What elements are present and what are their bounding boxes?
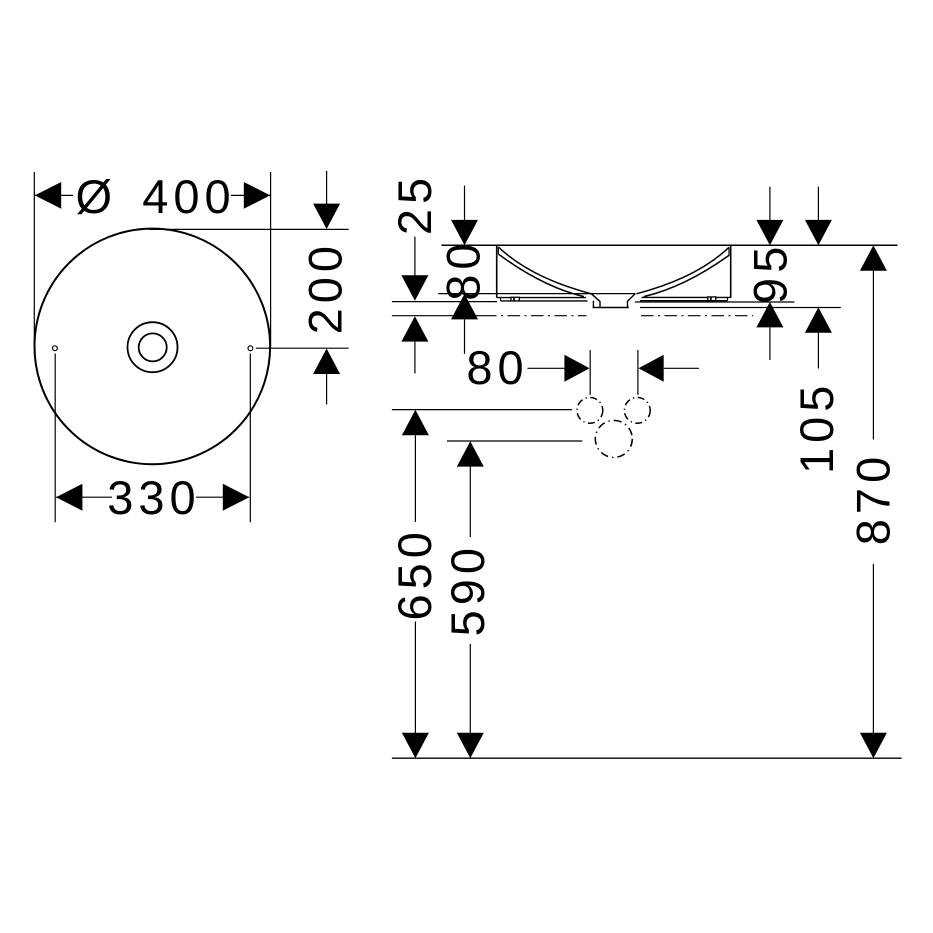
svg-text:330: 330	[107, 471, 200, 524]
dimension 330: line segments	[56, 496, 112, 498]
dimension 330: right arrowhead	[223, 484, 249, 511]
svg-text:650: 650	[388, 527, 441, 620]
dimension 650: bottom arrow (down)	[402, 733, 429, 758]
basin left wall	[496, 245, 498, 297]
interior bottom line (80 reference, runs to drain flat)	[438, 293, 635, 295]
drain boss inner wall left	[599, 301, 601, 308]
svg-text:80: 80	[437, 238, 490, 300]
bowl upper curve right	[636, 247, 729, 293]
shell bottom line right	[642, 296, 731, 298]
plinth bottom line left	[501, 300, 588, 302]
drain outer circle	[128, 322, 178, 372]
drain funnel left slant	[591, 294, 599, 301]
svg-text:25: 25	[388, 173, 441, 235]
floor line	[392, 757, 902, 759]
dimension 80 horizontal: right line	[664, 367, 699, 369]
svg-text:Ø: Ø	[76, 170, 113, 223]
supply hole circle right (dash-dot)	[624, 398, 650, 424]
plinth bottom line right	[640, 300, 728, 302]
shell bottom line left	[497, 297, 586, 299]
drain hole reference line (590 level)	[447, 440, 583, 442]
svg-text:80: 80	[466, 341, 528, 394]
svg-text:590: 590	[441, 543, 494, 636]
drain hole circle (dash-dot)	[595, 420, 632, 457]
dimension 870: upper shaft	[872, 271, 874, 440]
dimension 590: bottom arrow (down)	[457, 733, 484, 758]
drain funnel right slant	[628, 294, 636, 301]
dimension 25: up arrow	[401, 316, 428, 341]
svg-text:400: 400	[142, 170, 235, 223]
basin outer circle (top view)	[35, 229, 271, 465]
dimension 650: lower shaft	[414, 622, 416, 734]
bowl upper curve left	[498, 247, 591, 294]
dimension 200: lower shaft	[326, 374, 328, 405]
inner rim notch right	[728, 247, 730, 255]
dimension 95: down arrow	[756, 220, 783, 245]
dimension 330: left witness line	[54, 354, 56, 523]
centre dash-dot line: middle part	[484, 315, 587, 317]
dimension 200: top arrow (down)	[313, 204, 340, 229]
supply holes reference line (650 level)	[392, 409, 572, 411]
dimension 105: down arrow	[805, 220, 832, 245]
dimension 95: lower shaft	[769, 327, 771, 360]
dimension 200: upper shaft	[326, 171, 328, 205]
dimension 25: upper shaft	[414, 237, 416, 276]
dimension 870: bottom arrow (down)	[860, 733, 887, 758]
dimension 95: up arrow	[756, 302, 783, 327]
dimension Ø400: right arrowhead	[244, 182, 270, 209]
dimension 80 horizontal: right witness line	[637, 350, 639, 395]
countertop line left of basin	[392, 301, 497, 303]
svg-text:200: 200	[299, 241, 352, 334]
dimension 80 vertical: up arrow	[451, 294, 478, 319]
dimension 80 vertical: down arrow	[451, 220, 478, 245]
rim top reference line	[442, 244, 898, 246]
dimension 330: left arrowhead	[56, 484, 82, 511]
bowl lower curve right	[644, 255, 730, 297]
bowl lower curve left	[498, 254, 584, 297]
dimension 80 vertical: upper shaft	[464, 186, 466, 221]
supply hole circle left (dash-dot)	[577, 398, 603, 424]
dimension 870: top arrow (up)	[860, 245, 887, 270]
dimension 25: lower shaft	[414, 342, 416, 374]
drain boss bottom	[593, 307, 629, 309]
dimension 650: top arrow (up)	[402, 410, 429, 435]
dimension 200: top tangent reference line	[149, 228, 349, 230]
foot clip right	[708, 297, 716, 301]
drain inner circle	[139, 333, 167, 361]
dimension 80 horizontal: right-pointing arrow	[564, 355, 589, 382]
dimension 870: lower shaft	[872, 564, 874, 733]
left fixing dot	[53, 346, 58, 351]
drain boss inner wall right	[627, 301, 629, 308]
dimension 25: down arrow	[401, 275, 428, 300]
right fixing dot	[248, 346, 253, 351]
dimension 80 horizontal: left line	[528, 367, 566, 369]
basin right wall	[730, 245, 732, 297]
dimension 105: upper shaft	[817, 187, 819, 221]
drain boss outer wall left	[592, 301, 594, 308]
svg-text:870: 870	[846, 452, 899, 545]
dimension Ø400: line stubs	[34, 194, 73, 196]
svg-text:95: 95	[744, 242, 797, 304]
dimension 80 horizontal: left-pointing arrow	[639, 355, 664, 382]
dimension 590: upper shaft	[469, 467, 471, 537]
dimension 590: top arrow (up)	[457, 441, 484, 466]
dimension 200: bottom arrow (up)	[313, 349, 340, 375]
centre dash-dot line: right part	[641, 315, 753, 317]
105 reference line	[640, 307, 841, 309]
plinth end left	[500, 298, 502, 301]
dimension Ø400: right witness line	[270, 172, 272, 346]
svg-text:105: 105	[790, 381, 843, 474]
dimension 200: centre reference line	[256, 347, 349, 349]
centre dash-dot line: solid left part	[392, 315, 484, 317]
dimension 590: lower shaft	[469, 644, 471, 733]
dimension 95: upper shaft	[769, 187, 771, 221]
plinth end right	[727, 297, 729, 300]
dimension 105: lower shaft	[817, 333, 819, 369]
dimension Ø400: left witness line	[33, 172, 35, 344]
foot clip left	[511, 297, 519, 301]
dimension 80 horizontal: left witness line	[589, 350, 591, 395]
dimension 330: right witness line	[249, 354, 251, 523]
inner rim notch left	[497, 247, 499, 254]
dimension 650: upper shaft	[414, 435, 416, 522]
dimension 105: up arrow	[805, 307, 832, 332]
dimension 80 vertical: lower shaft	[464, 319, 466, 353]
dimension Ø400: left arrowhead	[35, 182, 61, 209]
countertop line right of basin	[635, 301, 795, 303]
